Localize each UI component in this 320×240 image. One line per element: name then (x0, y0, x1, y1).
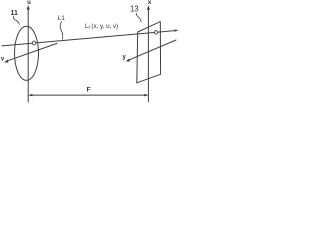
svg-text:x: x (148, 0, 152, 6)
svg-text:Lf (x, y, u, v): Lf (x, y, u, v) (85, 23, 118, 30)
svg-text:L1: L1 (58, 15, 66, 22)
svg-text:13: 13 (130, 4, 139, 13)
svg-text:v: v (1, 56, 5, 62)
svg-text:F: F (87, 87, 91, 94)
svg-text:y: y (123, 55, 127, 61)
svg-text:u: u (27, 0, 31, 6)
svg-text:11: 11 (10, 10, 18, 17)
